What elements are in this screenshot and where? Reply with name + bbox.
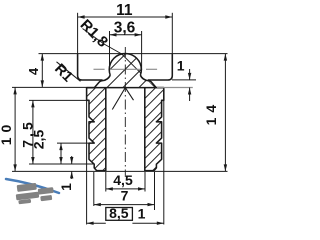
- svg-text:4: 4: [26, 67, 41, 75]
- svg-text:14: 14: [203, 100, 219, 126]
- svg-text:3,6: 3,6: [114, 19, 136, 36]
- svg-text:8,5: 8,5: [109, 205, 129, 221]
- svg-text:4,5: 4,5: [113, 172, 133, 188]
- svg-text:2,5: 2,5: [30, 130, 46, 150]
- svg-text:1: 1: [177, 57, 185, 73]
- svg-text:1: 1: [58, 183, 74, 191]
- svg-text:11: 11: [116, 2, 133, 19]
- svg-text:1: 1: [138, 205, 146, 221]
- svg-text:10: 10: [0, 120, 14, 146]
- svg-text:R1: R1: [51, 61, 75, 85]
- svg-text:7: 7: [121, 188, 129, 204]
